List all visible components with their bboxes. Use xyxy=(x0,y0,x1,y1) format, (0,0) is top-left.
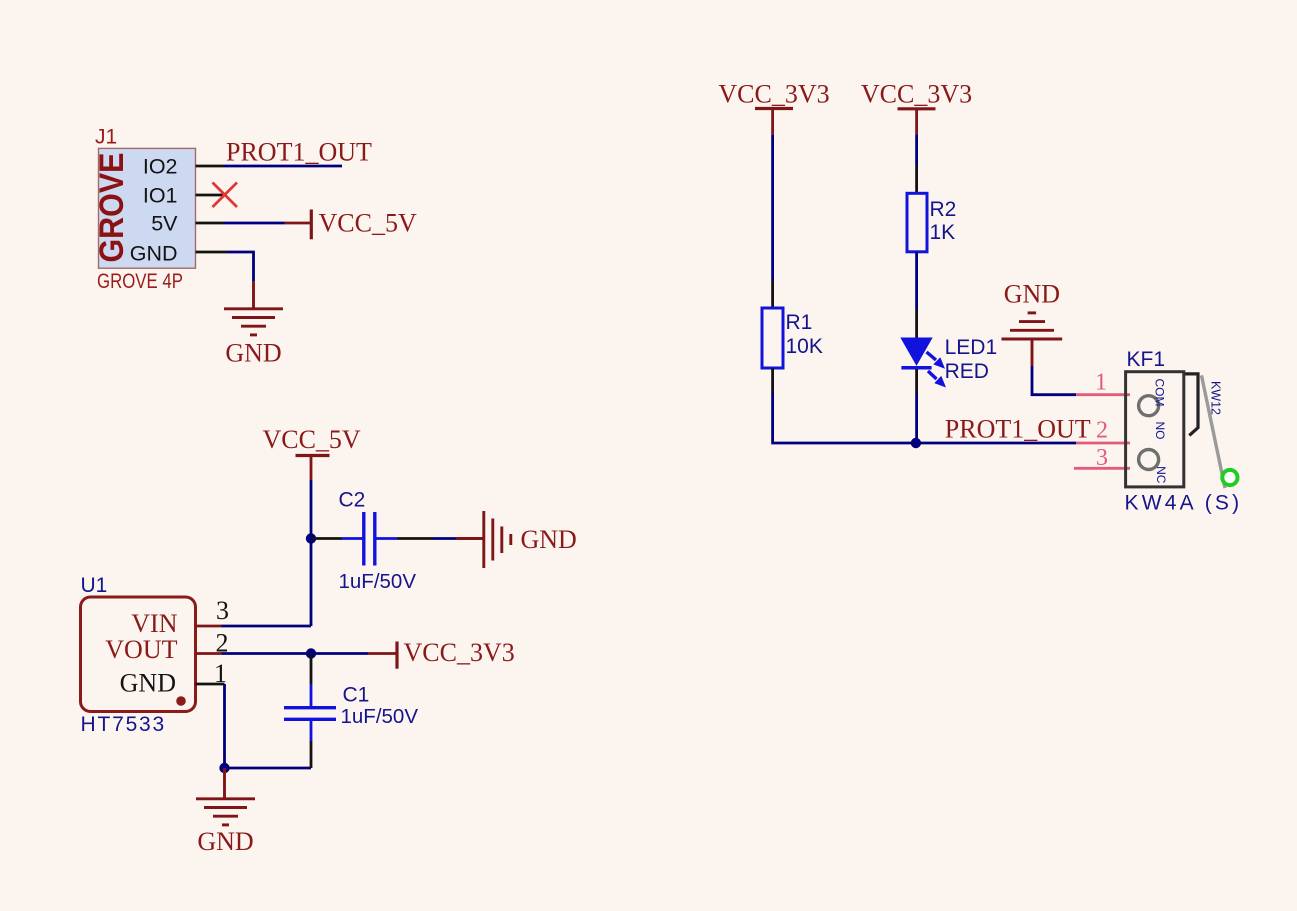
svg-text:1uF/50V: 1uF/50V xyxy=(341,705,419,728)
svg-text:5V: 5V xyxy=(151,212,178,236)
svg-text:NO: NO xyxy=(1153,422,1167,440)
svg-text:1K: 1K xyxy=(930,221,956,244)
svg-text:GROVE: GROVE xyxy=(93,153,131,263)
ground symbol (C2, rotated) xyxy=(456,511,511,568)
svg-text:KW12: KW12 xyxy=(1208,381,1222,415)
wire IO2 to net PROT1_OUT xyxy=(224,165,342,168)
svg-text:U1: U1 xyxy=(81,574,108,597)
power symbol VCC_3V3 (U1) xyxy=(368,638,515,669)
switch KF1 pin 2 xyxy=(1076,442,1130,445)
svg-text:IO1: IO1 xyxy=(143,184,178,208)
svg-text:GND: GND xyxy=(1004,280,1060,309)
svg-text:VCC_3V3: VCC_3V3 xyxy=(404,638,515,667)
junction node GND/C1 xyxy=(219,763,229,773)
svg-text:10K: 10K xyxy=(786,335,823,358)
wire VCC_3V3 to R2 xyxy=(915,134,918,193)
svg-text:LED1: LED1 xyxy=(945,336,998,359)
wire R1 to bus xyxy=(773,368,916,443)
svg-text:VIN: VIN xyxy=(131,609,177,638)
svg-text:RED: RED xyxy=(945,360,989,383)
wire VCC_3V3 to R1 xyxy=(771,135,774,308)
svg-text:KF1: KF1 xyxy=(1127,348,1166,371)
capacitor C1 xyxy=(284,708,336,720)
wire VIN to node xyxy=(222,625,312,628)
wire ground node to C1 bottom xyxy=(225,767,312,770)
wire ground to KF1 pin 1 xyxy=(1032,366,1076,395)
svg-text:VOUT: VOUT xyxy=(105,635,177,664)
resistor R1 xyxy=(762,308,783,368)
resistor R2 xyxy=(907,193,927,252)
wire node down to VIN pin wire xyxy=(310,539,313,627)
svg-text:C2: C2 xyxy=(339,489,366,512)
svg-text:NC: NC xyxy=(1154,466,1168,484)
wire 5V to VCC_5V xyxy=(224,222,285,225)
wire junction to KF1 pin 2 xyxy=(916,442,1076,445)
svg-text:KW4A (S): KW4A (S) xyxy=(1125,492,1243,515)
switch KF1 lever bracket xyxy=(1185,374,1198,436)
wire node to C2 left plate xyxy=(311,537,363,540)
pin 5V stub xyxy=(196,222,225,225)
LED LED1 xyxy=(900,338,946,388)
wire VOUT node down to C1 xyxy=(310,654,313,708)
switch KF1 pin 3 xyxy=(1074,467,1130,470)
svg-text:GND: GND xyxy=(197,827,253,856)
svg-text:VCC_5V: VCC_5V xyxy=(319,209,417,238)
svg-text:PROT1_OUT: PROT1_OUT xyxy=(945,414,1091,443)
svg-text:J1: J1 xyxy=(95,126,117,149)
svg-text:HT7533: HT7533 xyxy=(81,713,167,736)
svg-text:C1: C1 xyxy=(343,684,370,707)
wire C1 bottom to ground wire xyxy=(310,719,313,768)
connector J1 body xyxy=(93,148,196,268)
switch KF1 pin 1 xyxy=(1076,393,1130,396)
svg-text:1: 1 xyxy=(214,659,227,688)
no-connect X on IO1 xyxy=(213,183,238,208)
wire LED1 to bus junction xyxy=(915,369,918,443)
power symbol VCC_3V3 (R2 rail) xyxy=(861,79,972,134)
wire GND pin down to ground node xyxy=(223,684,226,768)
junction node VOUT/C1 xyxy=(306,648,316,658)
junction node PROT1_OUT xyxy=(911,438,921,448)
svg-text:IO2: IO2 xyxy=(143,155,178,179)
wire R2 to LED1 xyxy=(915,252,918,338)
switch KF1 body xyxy=(1126,372,1184,487)
svg-text:GND: GND xyxy=(130,242,178,266)
svg-text:VCC_3V3: VCC_3V3 xyxy=(718,79,829,108)
wire GND pin to ground xyxy=(227,252,254,281)
svg-text:2: 2 xyxy=(1096,418,1108,444)
pin GND stub (J1) xyxy=(196,251,228,254)
svg-text:R1: R1 xyxy=(786,311,813,334)
pin 2 (VOUT) stub xyxy=(196,652,222,655)
svg-text:GND: GND xyxy=(120,669,176,698)
wire C2 right plate to ground xyxy=(376,537,456,540)
pin IO2 stub xyxy=(196,165,225,168)
svg-text:3: 3 xyxy=(216,596,229,625)
svg-text:PROT1_OUT: PROT1_OUT xyxy=(226,137,372,166)
power symbol VCC_5V (U1 rail) xyxy=(262,425,360,480)
svg-text:COM: COM xyxy=(1153,379,1167,407)
pin IO1 stub xyxy=(196,194,225,197)
ground symbol (U1) xyxy=(196,768,255,825)
svg-text:VCC_3V3: VCC_3V3 xyxy=(861,79,972,108)
wire VCC_5V down to node xyxy=(310,480,313,539)
switch KF1 lever arm xyxy=(1202,375,1226,488)
junction node VCC_5V/C2 xyxy=(306,533,316,543)
power symbol VCC_5V (J1) xyxy=(285,209,417,240)
pin 1 (GND) stub xyxy=(196,683,225,686)
pin 3 (VIN) stub xyxy=(196,625,222,628)
ground symbol (J1) xyxy=(224,281,283,335)
svg-text:3: 3 xyxy=(1096,445,1108,471)
svg-text:GROVE 4P: GROVE 4P xyxy=(97,270,183,293)
svg-text:GND: GND xyxy=(225,339,281,368)
wire VOUT to VCC_3V3 xyxy=(222,652,369,655)
svg-text:GND: GND xyxy=(521,525,577,554)
svg-text:VCC_5V: VCC_5V xyxy=(262,425,360,454)
power symbol VCC_3V3 (R1 rail) xyxy=(718,79,829,135)
svg-text:1uF/50V: 1uF/50V xyxy=(339,570,417,593)
regulator U1 body xyxy=(81,597,196,712)
switch KF1 lever tip xyxy=(1222,470,1237,485)
svg-text:1: 1 xyxy=(1095,369,1107,395)
ground symbol (KF1, inverted) xyxy=(1002,313,1063,366)
capacitor C2 xyxy=(364,512,375,566)
svg-text:R2: R2 xyxy=(930,198,957,221)
